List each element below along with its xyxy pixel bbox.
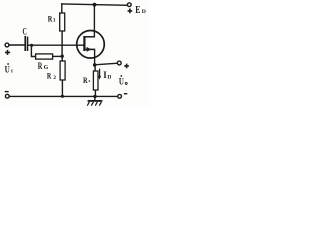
capacitor C plates — [25, 36, 27, 51]
svg-text:R: R — [38, 61, 43, 71]
transistor Q1 circle — [77, 31, 105, 59]
wire drain vertical rail to transistor — [93, 5, 95, 37]
wire RG right lead to junction — [53, 55, 63, 57]
svg-text:R: R — [47, 71, 52, 81]
wire source resistor bottom lead — [94, 90, 96, 96]
current arrow ID — [99, 69, 101, 77]
minus sign above left terminal — [5, 91, 9, 93]
wire R1 top lead — [61, 4, 63, 13]
resistor R2 — [60, 61, 65, 80]
node junction dot R1-RG-R2 — [61, 55, 64, 58]
svg-text:1: 1 — [53, 18, 56, 24]
node junction dot ground-rail — [93, 95, 96, 98]
wire R2 bottom lead — [61, 80, 63, 96]
wire capacitor to transistor gate — [28, 44, 84, 46]
transistor gate bar — [83, 36, 85, 51]
resistor R1 — [60, 13, 65, 31]
plus sign output — [124, 64, 129, 69]
wire R1 bottom lead crossing gate wire — [61, 31, 63, 56]
svg-text:2: 2 — [53, 75, 56, 81]
resistor R source — [93, 71, 98, 90]
wire source resistor top lead — [94, 65, 96, 71]
terminal input plus — [5, 43, 9, 47]
terminal input minus — [5, 94, 9, 98]
svg-text:E: E — [135, 5, 140, 16]
wire RG left drop from gate wire — [31, 45, 35, 56]
transistor drain lead inside — [84, 36, 94, 38]
wire bottom rail — [9, 95, 118, 97]
plus sign under ED terminal — [128, 9, 133, 14]
resistor RG — [36, 54, 53, 59]
node junction dot source-output — [93, 63, 97, 67]
ground — [87, 96, 102, 105]
svg-text:C: C — [23, 27, 27, 37]
transistor source lead inside — [84, 48, 94, 50]
wire source vertical transistor to output node — [94, 49, 96, 65]
node junction dot R2-rail — [61, 95, 64, 98]
svg-text:R: R — [83, 75, 88, 85]
terminal output plus — [117, 61, 121, 65]
wire R2 top lead — [61, 56, 63, 61]
minus sign output — [124, 93, 127, 95]
wire output node to plus terminal — [95, 63, 118, 65]
svg-text:D: D — [142, 9, 146, 15]
svg-text:D: D — [107, 74, 111, 80]
terminal ED supply — [127, 3, 131, 7]
node junction dot rail-drain — [93, 3, 97, 7]
plus sign under input terminal — [5, 50, 10, 55]
paper background — [0, 0, 149, 107]
svg-text:U: U — [5, 64, 11, 74]
wire input terminal to capacitor — [9, 44, 25, 46]
terminal output minus — [118, 94, 122, 98]
transistor source arrowhead — [87, 47, 92, 52]
node junction dot capacitor-RG — [30, 44, 33, 47]
svg-text:U: U — [119, 76, 124, 86]
wire top rail — [62, 4, 128, 5]
